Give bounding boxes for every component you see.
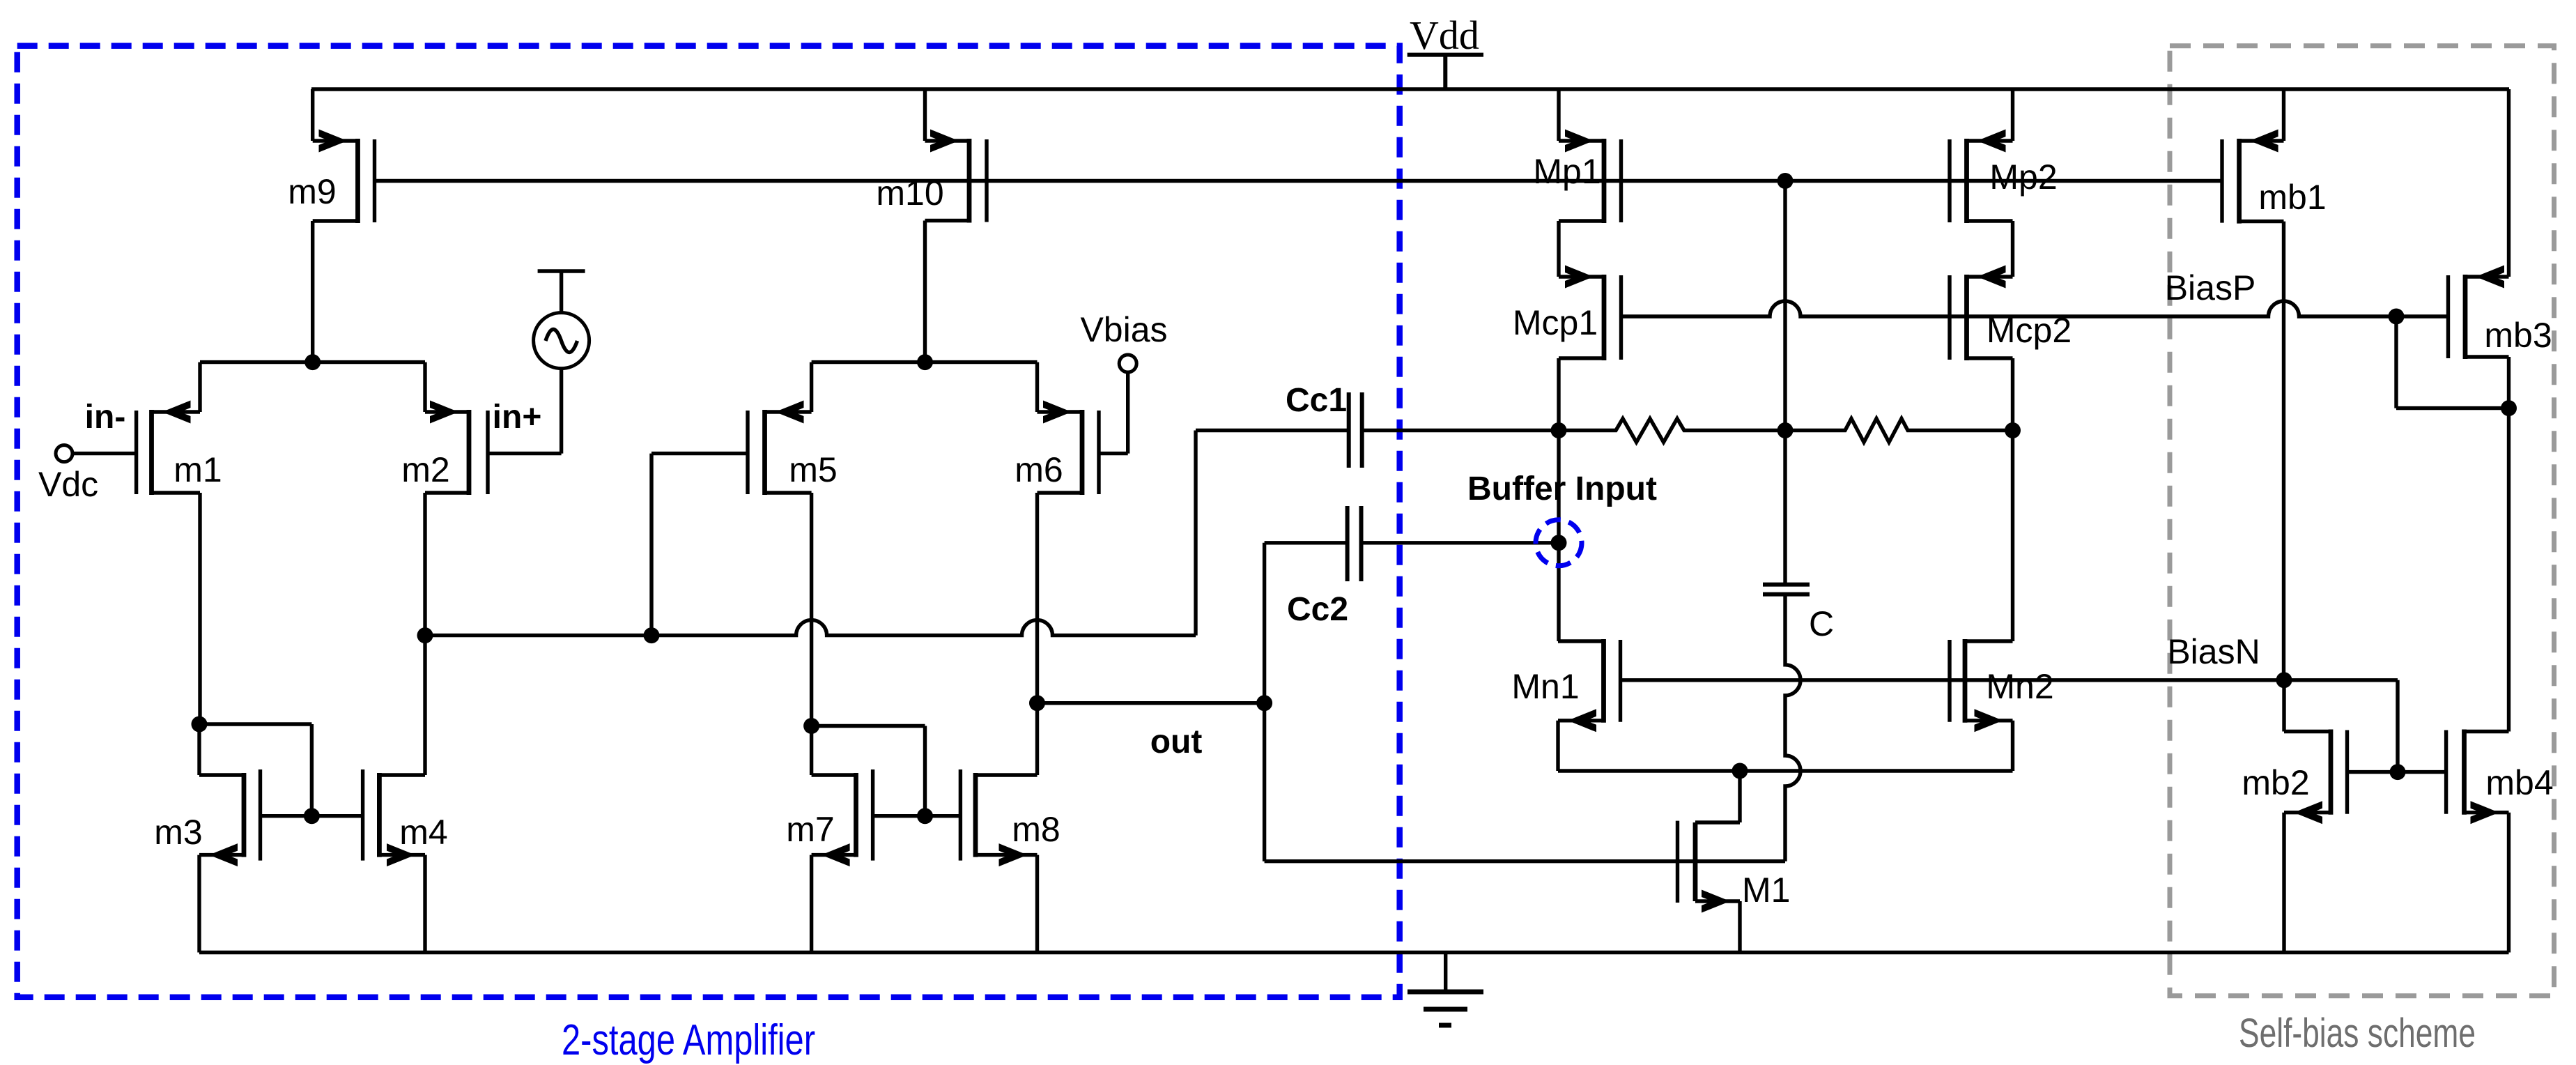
wire M1 drain link [1695, 771, 1740, 822]
node Buffer Input junction [1551, 535, 1567, 551]
wire m6 gate to Vbias [1099, 372, 1128, 454]
node Mcp2 drain junction [2005, 422, 2021, 438]
ground rail wire [199, 951, 2509, 954]
wire m5 drain to m7-m8 gate link [812, 726, 925, 816]
wire m5 source up [810, 362, 813, 412]
Mp2 label [1989, 158, 2057, 197]
svg-text:Mn1: Mn1 [1511, 667, 1579, 706]
m3 label [154, 813, 202, 852]
transistor m4 (NMOS) [363, 769, 425, 866]
m6 label [1015, 450, 1063, 489]
transistor m9 (PMOS) [313, 130, 375, 224]
wire Mn source row [1558, 769, 2013, 772]
node out junction at m6-m8 [1029, 695, 1045, 711]
out label [1150, 723, 1203, 760]
Buffer Input label [1467, 470, 1657, 507]
wire Cc2 to buffer input node [1363, 541, 1559, 544]
svg-text:m8: m8 [1012, 810, 1060, 849]
wire mb2-mb4 gate row [2347, 770, 2446, 774]
C label [1809, 604, 1834, 643]
capacitor Cc2 [1348, 506, 1362, 581]
wire m3-m4 gate row [261, 814, 363, 818]
svg-text:Vbias: Vbias [1080, 310, 1167, 349]
wire Mp2 source to Mcp2 drain [2011, 221, 2014, 277]
Vdc label [38, 465, 98, 504]
terminal circle in- [56, 445, 72, 462]
transistor Mp1 (PMOS) [1559, 130, 1621, 224]
wire m1 source up [198, 362, 201, 412]
svg-text:Vdd: Vdd [1410, 13, 1479, 58]
wire BiasN to mb gate link [2284, 680, 2398, 772]
m2 label [401, 450, 449, 489]
Vdd terminal symbol [1407, 55, 1483, 89]
transistor mb2 (NMOS) [2284, 730, 2347, 825]
svg-text:Mn2: Mn2 [1986, 667, 2053, 706]
ac source top terminal [538, 271, 585, 313]
svg-text:BiasN: BiasN [2167, 632, 2260, 671]
wire Mn1 source down [1556, 721, 1559, 771]
m10 label [876, 174, 943, 213]
wire Mn1-Mn2 gate row BiasN [1621, 678, 2285, 682]
node mb3 source junction [2501, 400, 2517, 416]
wire out to Cc2 left plate [1265, 541, 1345, 544]
wire m7 source to ground [810, 855, 813, 953]
svg-text:Cc2: Cc2 [1287, 591, 1348, 628]
wire mb4 source to ground [2507, 813, 2511, 953]
svg-text:Mp2: Mp2 [1989, 158, 2057, 197]
BiasP label [2165, 268, 2256, 307]
capacitor Cc1 [1349, 392, 1362, 468]
wire Mp1 source to Mcp1 drain [1557, 221, 1560, 277]
2-stage amplifier dashed boundary box [17, 46, 1400, 997]
m4 label [399, 813, 447, 852]
transistor Mn1 (NMOS) [1558, 639, 1621, 732]
svg-text:m3: m3 [154, 813, 202, 852]
transistor Mcp1 (PMOS cascode) [1559, 266, 1621, 361]
resistor R1 [1559, 419, 1785, 443]
Vdd supply rail wire [311, 87, 2509, 91]
M1 label [1742, 871, 1790, 910]
svg-text:2-stage Amplifier: 2-stage Amplifier [562, 1016, 815, 1064]
wire m10 drain to rail [923, 89, 927, 141]
wire out to Cc2 [1263, 543, 1266, 703]
transistor m1 (PMOS) [137, 401, 200, 496]
wire buffer node down to Mn1 drain [1557, 431, 1560, 642]
wire tail node row m1-m2 [200, 360, 425, 364]
Mcp1 label [1513, 303, 1598, 342]
wire Cc1 to buffer node [1364, 429, 1559, 432]
wire m3 drain up [197, 724, 201, 775]
wire capacitor C bottom with hops to M1 gate line [1785, 596, 1800, 861]
wire Mp1 drain to rail [1557, 89, 1560, 141]
wire m2 gate to ac source [488, 369, 562, 454]
m9 label [288, 172, 336, 211]
wire Mn2 drain up to comp row [2011, 431, 2014, 642]
m8 label [1012, 810, 1060, 849]
ground symbol [1407, 953, 1483, 1026]
svg-text:mb2: mb2 [2242, 763, 2309, 802]
svg-text:in+: in+ [493, 399, 542, 436]
svg-text:in-: in- [85, 399, 126, 436]
transistor m3 (NMOS) [199, 769, 261, 866]
self-bias scheme dashed boundary box [2170, 46, 2554, 996]
Cc2 label [1287, 591, 1348, 628]
svg-text:mb4: mb4 [2485, 763, 2553, 802]
Mp1 label [1533, 152, 1601, 191]
node mb gate junction [2390, 764, 2406, 780]
wire Mn2 source down [2011, 721, 2014, 771]
svg-text:M1: M1 [1742, 871, 1790, 910]
node m10 drain junction [917, 354, 933, 370]
wire mb1 source down to BiasN node [2282, 222, 2285, 680]
wire m9 source down to tail node [311, 221, 314, 362]
svg-text:mb1: mb1 [2258, 178, 2326, 217]
wire out down to M1 gate line [1265, 703, 1785, 861]
node m3-m4 gate junction [304, 808, 320, 824]
wire Mcp2 source down to comp row [2011, 358, 2014, 431]
transistor m8 (NMOS) [960, 769, 1037, 866]
wire BiasP down to mb3 source [2396, 316, 2509, 408]
node m5 gate tap junction [644, 627, 660, 643]
wire mb2 source to ground [2282, 813, 2285, 953]
wire stage1 output row with hops [425, 620, 1196, 636]
wire m2 source up [423, 362, 426, 412]
svg-text:Buffer Input: Buffer Input [1467, 470, 1657, 507]
svg-text:Mcp1: Mcp1 [1513, 303, 1598, 342]
transistor mb4 (NMOS) [2446, 730, 2509, 825]
svg-text:m10: m10 [876, 174, 943, 213]
wire mb3 source down to mb4 drain [2507, 357, 2511, 732]
wire m7-m8 gate row [873, 814, 961, 818]
svg-text:Mp1: Mp1 [1533, 152, 1601, 191]
node buffer top junction [1551, 422, 1567, 438]
in- label [85, 399, 126, 436]
Vdd label [1410, 13, 1479, 58]
svg-text:m2: m2 [401, 450, 449, 489]
node BiasP junction [2389, 309, 2405, 325]
wire out row [1038, 701, 1265, 705]
ac source V1 [534, 313, 589, 369]
transistor m5 (PMOS) [748, 401, 812, 496]
transistor mb3 (PMOS) [2448, 266, 2509, 360]
wire m10 source down [923, 221, 927, 362]
mb4 label [2485, 763, 2553, 802]
transistor M1 (NMOS) [1678, 821, 1741, 913]
transistor m7 (NMOS) [812, 769, 873, 866]
wire m5 gate link [651, 454, 748, 636]
wire in- to m1 gate [72, 452, 137, 455]
node m7-m8 gate junction [917, 808, 933, 824]
wire m4 source to ground [423, 855, 426, 953]
svg-text:m6: m6 [1015, 450, 1063, 489]
wire m9 drain to Vdd rail [311, 89, 314, 141]
Self-bias scheme caption [2239, 1011, 2476, 1056]
wire mb1 drain to rail [2282, 89, 2285, 141]
wire stage1 row up to Cc1 [1196, 431, 1347, 636]
transistor Mcp2 (PMOS cascode) [1950, 266, 2013, 361]
mb2 label [2242, 763, 2309, 802]
transistor m10 (PMOS) [925, 130, 987, 223]
svg-text:Vdc: Vdc [38, 465, 98, 504]
svg-text:m9: m9 [288, 172, 336, 211]
2-stage Amplifier caption [562, 1016, 815, 1064]
mb3 label [2484, 316, 2552, 355]
wire m5-m6 source row [812, 360, 1038, 364]
buffer input dashed marker circle [1536, 520, 1582, 566]
resistor R2 [1785, 419, 2013, 443]
svg-text:m7: m7 [786, 810, 834, 849]
transistor mb1 (PMOS) [2222, 130, 2284, 224]
Mn2 label [1986, 667, 2053, 706]
node BiasN junction [2276, 672, 2292, 688]
node out right junction [1256, 695, 1272, 711]
wire gate bus tap down to comp row [1783, 181, 1787, 431]
svg-text:Cc1: Cc1 [1286, 382, 1347, 419]
terminal circle Vbias [1119, 355, 1136, 372]
wire m4 drain up [423, 636, 426, 775]
wire m2 drain down [423, 493, 426, 636]
m5 label [789, 450, 837, 489]
node tail junction [304, 354, 321, 370]
svg-text:m4: m4 [399, 813, 447, 852]
svg-text:Self-bias scheme: Self-bias scheme [2239, 1011, 2476, 1056]
BiasN label [2167, 632, 2260, 671]
wire comp mid down to capacitor C [1783, 431, 1787, 583]
node m5-m7 junction [803, 718, 819, 734]
Vbias label [1080, 310, 1167, 349]
wire m1 drain down [198, 493, 201, 724]
wire Mp2 drain to rail [2011, 89, 2014, 141]
wire m8 source to ground [1035, 855, 1039, 953]
node m1 drain junction [192, 717, 208, 733]
wire gate bus m9-m10-Mp1-Mp2-mb1 [375, 179, 2223, 183]
svg-text:Mcp2: Mcp2 [1987, 311, 2072, 350]
capacitor C [1763, 585, 1810, 595]
transistor m2 (PMOS) [425, 401, 488, 496]
m1 label [173, 450, 222, 489]
svg-text:mb3: mb3 [2484, 316, 2552, 355]
mb1 label [2258, 178, 2326, 217]
Cc1 label [1286, 382, 1347, 419]
svg-text:C: C [1809, 604, 1834, 643]
wire Mcp1-Mcp2 gate row BiasP with hops [1621, 301, 2448, 316]
Mn1 label [1511, 667, 1579, 706]
wire Mcp1 source down to buffer node [1557, 358, 1560, 431]
wire m6 source up [1035, 362, 1039, 412]
Mcp2 label [1987, 311, 2072, 350]
node junction on gate bus [1777, 173, 1794, 189]
wire m3 source to ground [197, 855, 201, 953]
wire m1 drain to m3-m4 gate link [199, 724, 311, 816]
m7 label [786, 810, 834, 849]
node M1 drain junction [1732, 763, 1748, 779]
wire m5 drain down to m7 [810, 493, 813, 775]
svg-text:m5: m5 [789, 450, 837, 489]
transistor m6 (PMOS) [1038, 401, 1100, 496]
node compensation mid junction [1777, 422, 1794, 438]
wire m6 drain down to out node [1035, 493, 1039, 775]
wire mb2 drain up [2282, 680, 2285, 732]
wire M1 source to ground [1738, 901, 1741, 953]
in+ label [493, 399, 542, 436]
svg-text:BiasP: BiasP [2165, 268, 2256, 307]
svg-text:m1: m1 [173, 450, 222, 489]
svg-text:out: out [1150, 723, 1203, 760]
wire mb3 drain to rail [2507, 89, 2511, 277]
node m2 drain junction [417, 627, 433, 643]
transistor Mp2 (PMOS) [1950, 130, 2013, 224]
transistor Mn2 (NMOS) [1950, 639, 2013, 732]
